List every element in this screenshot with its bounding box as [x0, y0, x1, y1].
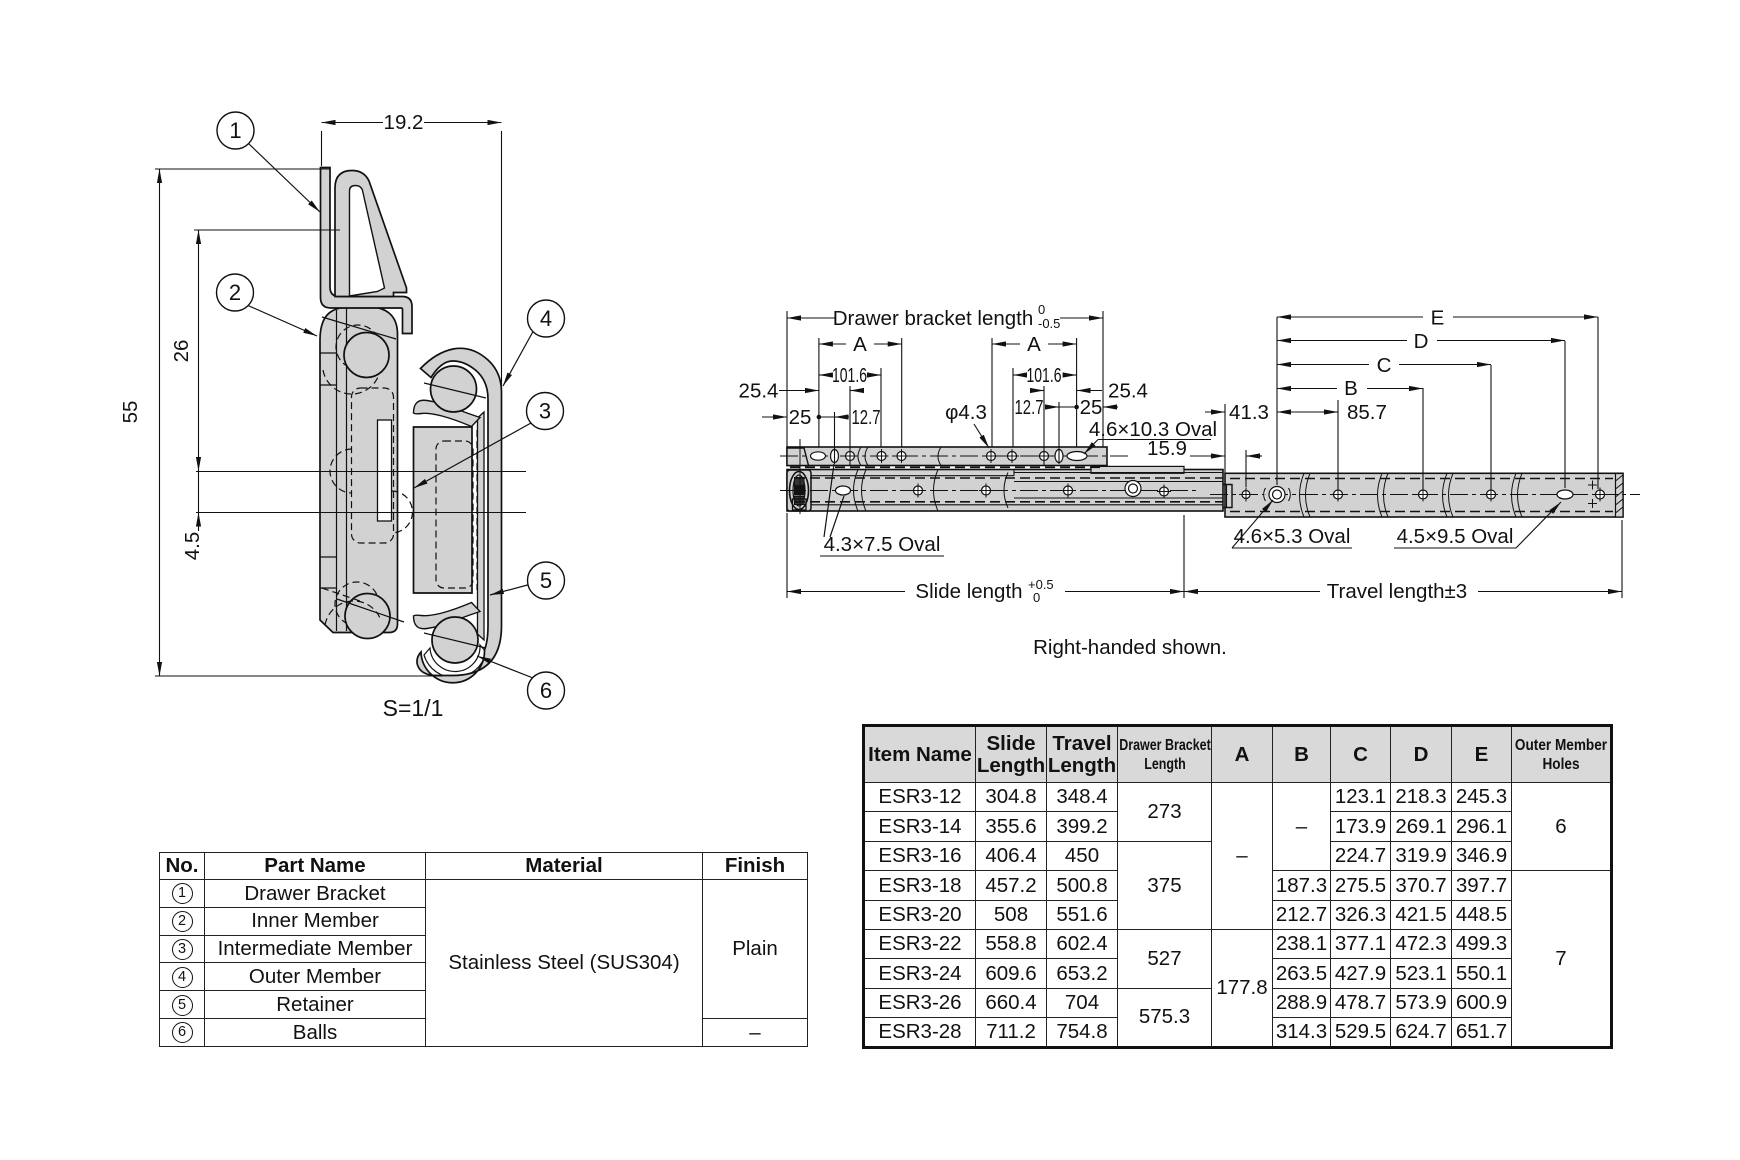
- svg-text:25.4: 25.4: [739, 380, 779, 403]
- dashed hidden lines: [780, 456, 1640, 512]
- svg-text:2: 2: [229, 280, 241, 305]
- svg-text:12.7: 12.7: [1015, 396, 1044, 419]
- main bar left cap (front bearing): [787, 470, 811, 511]
- svg-text:12.7: 12.7: [852, 406, 881, 429]
- bracket spring clip (triangle): [335, 171, 407, 297]
- svg-text:41.3: 41.3: [1229, 401, 1269, 424]
- dashed semicircle right at lower centerline: [392, 491, 413, 533]
- drawer bracket length: [787, 317, 835, 319]
- bottom right ball: [432, 617, 478, 663]
- bracket bar left cap: [787, 448, 809, 466]
- main slide bar (inner+intermediate): [787, 470, 1223, 512]
- joggle curves: [854, 447, 1523, 517]
- top ball (6) dashed ghost: [336, 325, 380, 369]
- svg-text:6: 6: [540, 678, 552, 703]
- circled part numbers + leaders: [217, 112, 565, 709]
- svg-text:A: A: [853, 333, 867, 356]
- svg-text:C: C: [1377, 354, 1392, 377]
- clip slot (white): [350, 186, 385, 297]
- svg-text:19.2: 19.2: [384, 111, 424, 134]
- holes: main bar (cy 490.5): [836, 486, 851, 495]
- 25 / 12.7 left (y 417): [762, 416, 787, 418]
- inner member body (part 2): [320, 307, 398, 633]
- right end cap hatch: [1616, 474, 1624, 518]
- svg-text:4.3×7.5 Oval: 4.3×7.5 Oval: [824, 533, 941, 556]
- svg-text:0: 0: [1033, 590, 1040, 605]
- retainer strip (5): [478, 412, 485, 640]
- outer member (part 4) C channel: [417, 348, 502, 682]
- hatch lines on right cap: [1616, 475, 1624, 513]
- retainer under-ball arc: [424, 645, 486, 678]
- 15.9: [1245, 450, 1247, 487]
- dim 4.5: [198, 472, 200, 513]
- svg-text:0: 0: [1038, 302, 1045, 317]
- inner member left flange lines: [336, 310, 338, 631]
- dashed semicircle left at upper centerline: [330, 449, 352, 493]
- retainer dashed rounded rect (hidden): [352, 388, 394, 543]
- svg-text:3: 3: [539, 399, 551, 424]
- inner horizontal lines of main bar: [787, 475, 1014, 477]
- side view texts: [739, 302, 1514, 659]
- svg-text:A: A: [1027, 333, 1041, 356]
- intermediate dashed rect: [436, 441, 473, 588]
- svg-text:Drawer bracket length: Drawer bracket length: [833, 307, 1034, 330]
- 4.6x10.3 label leader + underline: [1098, 439, 1211, 441]
- dim 26: [194, 229, 340, 231]
- 101.6 dims (arrows point outward at ticks): [819, 374, 828, 376]
- main bar right end step joint: [1223, 485, 1232, 508]
- svg-text:4.6×5.3 Oval: 4.6×5.3 Oval: [1234, 525, 1351, 548]
- 25.4 right: [1032, 390, 1044, 392]
- dim 55 extension lines: [155, 168, 330, 170]
- oval leaders bottom: [824, 464, 834, 537]
- intermediate member edges: [1014, 472, 1223, 474]
- slide / travel length: [786, 513, 788, 598]
- top right ball: [431, 366, 477, 412]
- 41.3 / 85.7: [1224, 404, 1226, 473]
- retainer top wavy band: [414, 400, 481, 426]
- svg-text:85.7: 85.7: [1347, 401, 1387, 424]
- svg-text:25: 25: [1080, 396, 1103, 419]
- phi4.3 leader: [974, 424, 989, 448]
- svg-text:101.6: 101.6: [1027, 364, 1062, 387]
- dimension texts: [119, 111, 443, 721]
- svg-text:-0.5: -0.5: [1038, 316, 1060, 331]
- svg-text:E: E: [1431, 307, 1445, 330]
- svg-text:101.6: 101.6: [832, 364, 867, 387]
- A dims: [819, 343, 846, 345]
- dim 19.2: [321, 131, 323, 166]
- diagonal section lines: [322, 317, 396, 339]
- svg-text:Right-handed shown.: Right-handed shown.: [1033, 636, 1227, 659]
- 12.7 / 25 right (y 407): [1045, 406, 1059, 408]
- raised intermediate strip: [1091, 466, 1184, 473]
- top ball solid: [344, 333, 389, 378]
- svg-text:B: B: [1344, 377, 1358, 400]
- dashed vertical in gap: [476, 430, 478, 590]
- svg-text:+0.5: +0.5: [1028, 577, 1054, 592]
- hole cross ticks: [843, 449, 1607, 508]
- svg-text:φ4.3: φ4.3: [945, 401, 987, 424]
- svg-text:25.4: 25.4: [1108, 380, 1148, 403]
- 25.4 left: [779, 390, 819, 392]
- svg-text:Travel length±3: Travel length±3: [1327, 580, 1467, 603]
- outer member bar: [1225, 473, 1623, 517]
- drawer bracket bar: [787, 447, 1107, 466]
- holes: outer bar (cy 494.5): [1242, 491, 1250, 499]
- svg-text:Slide length: Slide length: [915, 580, 1022, 603]
- holes: bracket bar (cy 456): [811, 450, 1605, 503]
- svg-text:1: 1: [229, 118, 241, 143]
- rib slot (white): [378, 420, 392, 521]
- svg-text:55: 55: [119, 401, 142, 424]
- retainer bottom wavy band: [414, 603, 481, 629]
- svg-text:4: 4: [540, 306, 552, 331]
- svg-text:4.5: 4.5: [181, 532, 204, 561]
- diagonals through right balls: [424, 383, 486, 398]
- extension verticals left group: [786, 311, 788, 447]
- B C D E: [1276, 317, 1278, 485]
- intermediate member (part 3): [414, 427, 473, 593]
- drawer bracket (part 1): plate + foot + hook: [321, 168, 413, 334]
- svg-text:15.9: 15.9: [1147, 437, 1187, 460]
- bottom ball solid: [345, 594, 390, 639]
- bottom ball dashed ghost: [335, 582, 379, 626]
- svg-text:D: D: [1414, 330, 1429, 353]
- svg-text:4.5×9.5 Oval: 4.5×9.5 Oval: [1397, 525, 1514, 548]
- svg-text:S=1/1: S=1/1: [383, 695, 444, 721]
- svg-text:25: 25: [789, 406, 812, 429]
- svg-text:5: 5: [540, 568, 552, 593]
- svg-text:26: 26: [170, 340, 193, 363]
